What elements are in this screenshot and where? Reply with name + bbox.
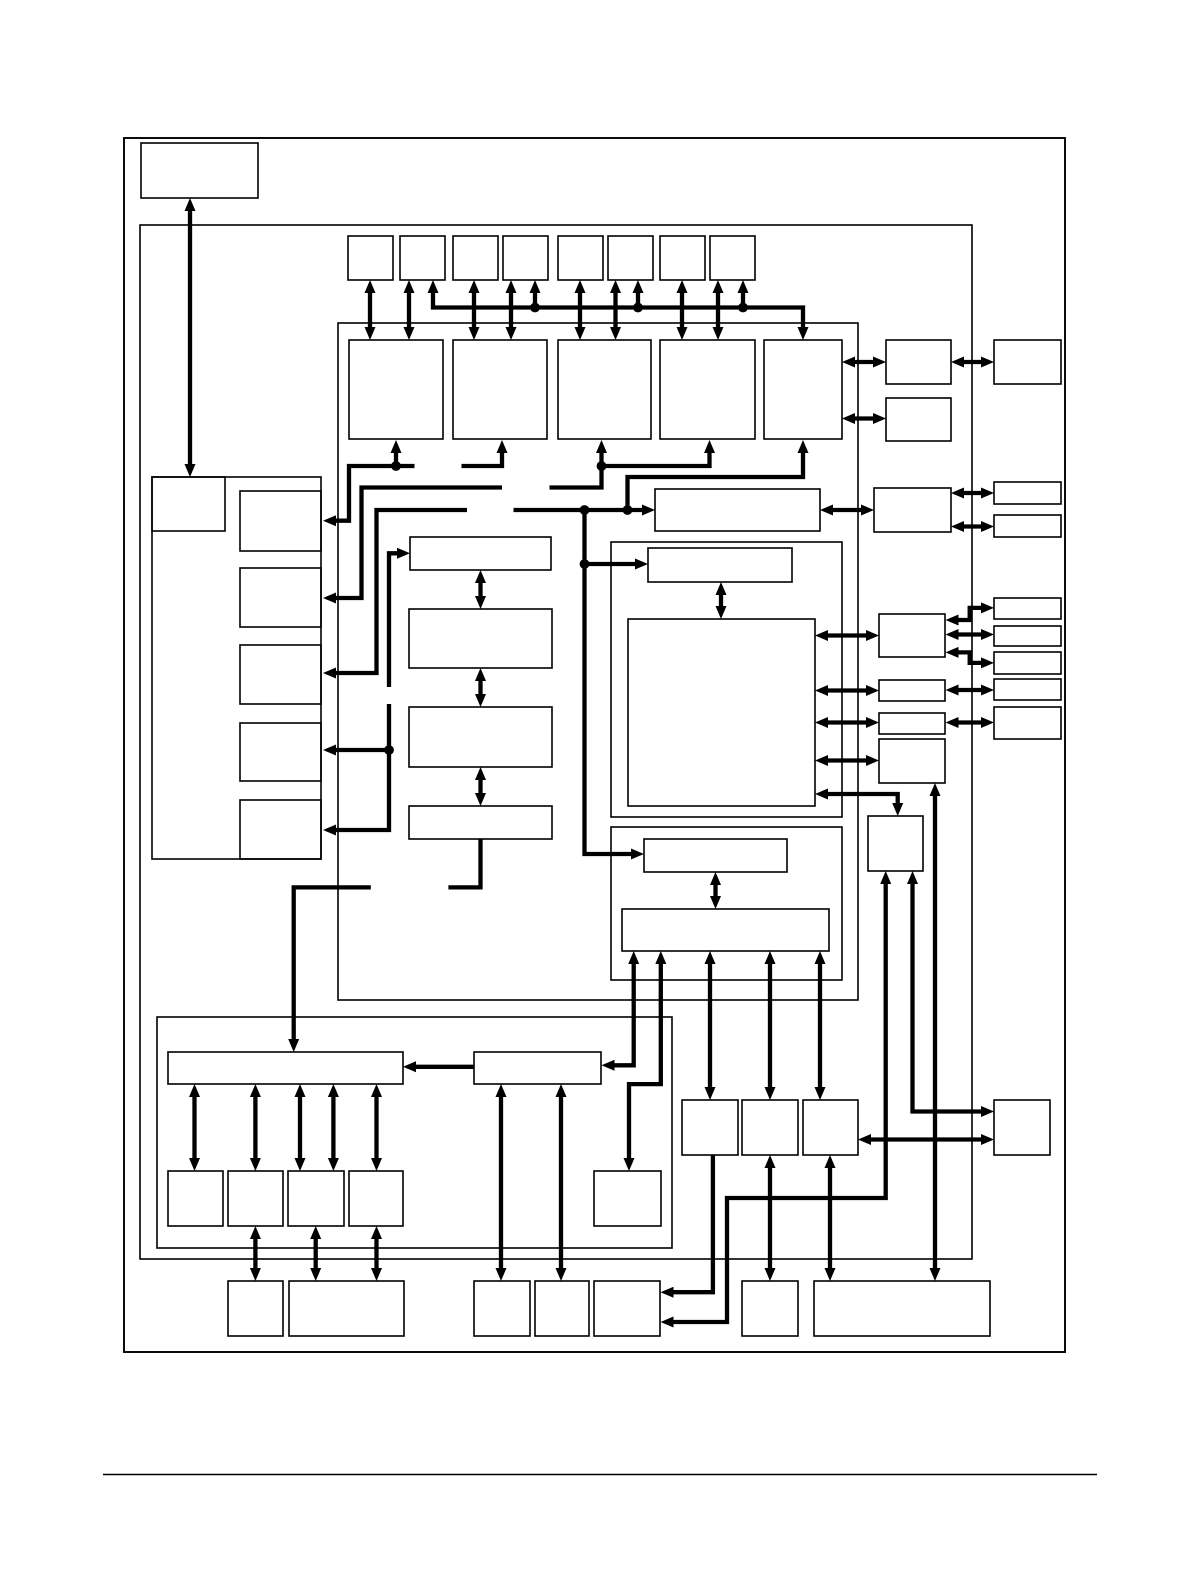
wire branch to L4	[329, 748, 389, 752]
wire T3-WB double arrow	[825, 1155, 836, 1281]
wire SB-BB double arrow x315.7	[310, 1226, 321, 1281]
wire S-to-E double arrow x511	[506, 280, 517, 340]
arrowhead left into L3	[323, 668, 336, 679]
wire B2-T3 double arrow	[815, 951, 826, 1100]
wire S-to-E double arrow x615.5	[610, 280, 621, 340]
arrowhead down into E5 top	[798, 327, 809, 340]
box FRB1	[994, 598, 1061, 619]
wire B2-W2 net	[608, 957, 634, 1065]
inner chip boundary	[140, 225, 972, 1259]
junction net x584 to M-top	[580, 559, 590, 569]
box FR2	[994, 482, 1061, 504]
register box S8	[710, 236, 755, 280]
wire RB1-FRB1 jog	[952, 608, 989, 620]
wire feeder E2	[462, 446, 503, 466]
junction control bus b	[623, 505, 633, 515]
middle logic container	[611, 542, 842, 817]
box M-top	[648, 548, 792, 582]
wire R3-FR2 double arrow	[951, 488, 994, 499]
junction on top bus x638	[633, 303, 643, 313]
wire RB1-FRB2 double arrow	[946, 629, 995, 640]
wire B2-SB5 net	[629, 957, 661, 1165]
arrowhead up into S box x638	[633, 280, 644, 293]
wire branch to M-top	[585, 562, 643, 566]
wire W1 feeder	[294, 887, 371, 1046]
wire SD-BB5 net	[666, 877, 886, 1322]
arrowhead up into SD b	[907, 871, 918, 884]
box FRB5	[994, 707, 1061, 739]
wire feeder L3	[329, 510, 467, 673]
arrowhead up into S box x535	[530, 280, 541, 293]
wide box WB	[814, 1281, 990, 1336]
wire feeder E1 up shaft	[394, 446, 398, 466]
long control box LB	[655, 489, 820, 531]
box M1	[410, 537, 551, 570]
box RB2	[879, 680, 945, 701]
cpu core container	[338, 323, 858, 1000]
box FRB2	[994, 626, 1061, 646]
wire bus branch up x743	[741, 286, 745, 308]
wire S-to-E double arrow x474	[469, 280, 480, 340]
arrowhead left into BB5 lower	[661, 1317, 674, 1328]
wire R3-FR3 double arrow	[951, 521, 994, 532]
arrowhead left into RB1 top	[946, 615, 959, 626]
wire top bus	[433, 286, 803, 334]
wire net x584	[585, 510, 639, 854]
register box S3	[453, 236, 498, 280]
wire W1-SB double arrow x255.4	[250, 1084, 261, 1171]
wire BIG-RB2 double arrow	[815, 685, 879, 696]
wire R1-FR1 double arrow	[951, 357, 994, 368]
box SB3	[288, 1171, 344, 1226]
junction on top bus x535	[530, 303, 540, 313]
wire W1-SB double arrow x300	[295, 1084, 306, 1171]
wire SD-TR net	[913, 877, 989, 1112]
wire W1-SB double arrow x194.5	[189, 1084, 200, 1171]
arrowhead right into LB	[642, 505, 655, 516]
arrowhead up into E3	[596, 440, 607, 453]
box M3	[409, 707, 552, 767]
wire bus branch up x638	[636, 286, 640, 308]
left stack box L2	[240, 568, 321, 627]
register box S4	[503, 236, 548, 280]
box FRB4	[994, 679, 1061, 700]
box B2	[622, 909, 829, 951]
register box S7	[660, 236, 705, 280]
box SB4	[349, 1171, 403, 1226]
wire M3-M4 double arrow	[475, 767, 486, 806]
wire feeder E5 bottom	[628, 446, 804, 510]
register box S2	[400, 236, 445, 280]
arrowhead up into SD a	[880, 871, 891, 884]
box R3	[874, 488, 951, 532]
wide box W1	[168, 1052, 403, 1084]
arrowhead right into M-top	[635, 559, 648, 570]
left stack box L5	[240, 800, 321, 859]
box SD	[868, 816, 923, 871]
wire feeder E4 branch	[602, 446, 710, 466]
arrowhead up into E1	[391, 440, 402, 453]
box TR	[994, 1100, 1050, 1155]
box BB3	[474, 1281, 530, 1336]
arrowhead left into RB1 bottom	[946, 647, 959, 658]
bottom-left container	[157, 1017, 672, 1248]
arrowhead right into FRB1	[981, 602, 994, 613]
execution unit box E1	[349, 340, 443, 439]
wire S-to-E double arrow x682	[677, 280, 688, 340]
wire W2-W1	[409, 1065, 474, 1069]
arrowhead right into M1	[397, 548, 410, 559]
arrowhead left into L5	[323, 825, 336, 836]
box T1	[682, 1100, 738, 1155]
box R2	[886, 398, 951, 441]
box T3	[803, 1100, 858, 1155]
arrowhead right into B1	[631, 849, 644, 860]
middle lower container	[611, 827, 842, 980]
box R1	[886, 340, 951, 384]
arrowhead up into B2 a	[628, 951, 639, 964]
wire M2-M3 double arrow	[475, 668, 486, 707]
big logic box BIG	[628, 619, 815, 806]
register box S1	[348, 236, 393, 280]
wire BIG-RB4 double arrow	[815, 755, 879, 766]
wire S-to-E double arrow x718	[713, 280, 724, 340]
box FR3	[994, 515, 1061, 537]
wire feeder M1 upper	[389, 553, 404, 687]
wire T1-BB5 net	[666, 1155, 713, 1292]
arrowhead left into L2	[323, 593, 336, 604]
wire RB1-FRB3 jog	[952, 652, 989, 663]
box BB5	[594, 1281, 660, 1336]
left peripheral container	[152, 477, 321, 859]
arrowhead left into BIG	[815, 789, 828, 800]
wire T2-SBB double arrow	[765, 1155, 776, 1281]
footer rule	[103, 1474, 1097, 1476]
wire Mtop-BIG double arrow	[716, 582, 727, 619]
wire RB3-FRB5 double arrow	[946, 717, 995, 728]
wire feeder L2	[329, 488, 502, 599]
box FR1	[994, 340, 1061, 384]
wire top-left vertical double arrow	[185, 198, 196, 477]
left stack box L3	[240, 645, 321, 704]
wire SB-BB double arrow x255.4	[250, 1226, 261, 1281]
box RB1	[879, 614, 945, 657]
box RB4	[879, 739, 945, 783]
box B1	[644, 839, 787, 872]
junction L4 branch	[384, 745, 394, 755]
execution unit box E2	[453, 340, 547, 439]
arrowhead right into TR upper	[981, 1106, 994, 1117]
box FRB3	[994, 652, 1061, 674]
register box S6	[608, 236, 653, 280]
execution unit box E5	[764, 340, 842, 439]
wire S-to-E double arrow x580	[575, 280, 586, 340]
left stack box L4	[240, 723, 321, 781]
wire SB-BB double arrow x376.5	[371, 1226, 382, 1281]
wire feeder L4-L5 lower	[329, 704, 389, 830]
execution unit box E4	[660, 340, 755, 439]
arrowhead up into S2	[428, 280, 439, 293]
wire S-to-E double arrow x370	[365, 280, 376, 340]
box RB3	[879, 713, 945, 734]
junction feeder E1	[391, 461, 401, 471]
box BB4	[535, 1281, 589, 1336]
junction control bus a	[580, 505, 590, 515]
execution unit box E3	[558, 340, 651, 439]
arrowhead up into B2 b	[655, 951, 666, 964]
arrowhead down into SB5	[624, 1158, 635, 1171]
wire W2-BB3 double arrow	[496, 1084, 507, 1281]
arrowhead up into E4	[704, 440, 715, 453]
wire BIG-RB1 double arrow	[815, 630, 879, 641]
wire S-to-E double arrow x409	[404, 280, 415, 340]
wire W1-SB double arrow x333.4	[328, 1084, 339, 1171]
wire feeder E1/L1	[329, 466, 415, 521]
box top-left	[141, 143, 258, 198]
box BB2	[289, 1281, 404, 1336]
box SB1	[168, 1171, 223, 1226]
wire RB2-FRB4 double arrow	[946, 685, 995, 696]
wire BIG-SD	[821, 794, 898, 810]
arrowhead left into L4	[323, 745, 336, 756]
arrowhead left into W2	[602, 1060, 615, 1071]
wire control bus y510	[514, 508, 649, 512]
wide box W2	[474, 1052, 601, 1084]
box T2	[742, 1100, 798, 1155]
box BB1	[228, 1281, 283, 1336]
arrowhead left into W1 right	[403, 1061, 416, 1072]
arrowhead right into FRB3	[981, 657, 994, 668]
wire W1-SB double arrow x376.5	[371, 1084, 382, 1171]
wire M4 drop	[448, 839, 480, 887]
arrowhead up into E5 bottom	[798, 440, 809, 453]
wire BIG-RB3 double arrow	[815, 717, 879, 728]
wire E5-R2 double arrow	[842, 413, 886, 424]
wire B2-T2 double arrow	[765, 951, 776, 1100]
register box S5	[558, 236, 603, 280]
box SB2	[228, 1171, 283, 1226]
outer page border	[124, 138, 1065, 1352]
box SB5	[594, 1171, 661, 1226]
arrowhead up into S box x743	[738, 280, 749, 293]
wire RB4-WB double arrow	[930, 783, 941, 1281]
wire W2-BB4 double arrow	[556, 1084, 567, 1281]
left stack box L1	[240, 491, 321, 551]
junction feeder E3-E4	[597, 461, 607, 471]
wire LB-R3 double arrow	[820, 505, 874, 516]
arrowhead left into L1	[323, 515, 336, 526]
wire M1-M2 double arrow	[475, 570, 486, 609]
arrowhead down into SD	[892, 803, 903, 816]
arrowhead left into BB5 upper	[661, 1287, 674, 1298]
arrowhead down into W1	[288, 1039, 299, 1052]
arrowhead up into E2	[497, 440, 508, 453]
box SBB	[742, 1281, 798, 1336]
left container corner box	[152, 477, 225, 531]
wire feeder E3-E4	[550, 446, 602, 488]
wire E5-R1 double arrow	[842, 357, 886, 368]
box M2	[409, 609, 552, 668]
box M4	[409, 806, 552, 839]
wire T3-TR double arrow	[858, 1134, 994, 1145]
junction on top bus x743	[738, 303, 748, 313]
wire B1-B2 double arrow	[710, 872, 721, 909]
wire bus branch up x535	[533, 286, 537, 308]
wire B2-T1 double arrow	[705, 951, 716, 1100]
